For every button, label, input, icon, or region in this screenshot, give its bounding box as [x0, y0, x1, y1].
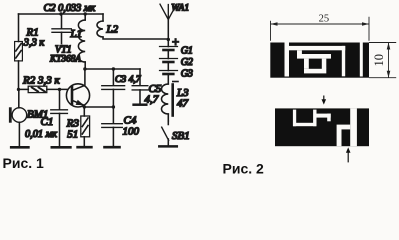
wire top rail	[19, 13, 104, 15]
label minus	[173, 81, 178, 83]
trace groove U left vertical	[293, 110, 296, 127]
trace groove band stub	[327, 114, 331, 122]
trace groove E	[304, 69, 326, 74]
svg-text:47: 47	[177, 98, 189, 110]
resistor R3	[81, 107, 90, 146]
wire left rail lower	[18, 61, 20, 90]
inductor L1	[78, 14, 85, 69]
svg-text:4,7: 4,7	[145, 94, 159, 106]
svg-text:3,3 к: 3,3 к	[23, 37, 45, 48]
capacitor C5	[132, 69, 148, 104]
wire left rail upper	[18, 14, 20, 42]
dimension 25 extension lines	[271, 17, 370, 41]
svg-text:10: 10	[372, 54, 386, 67]
ground C5	[134, 103, 147, 106]
trace groove T arm	[342, 125, 351, 130]
capacitor C4	[102, 107, 123, 146]
svg-text:Рис. 1: Рис. 1	[3, 155, 45, 171]
capacitor C3	[102, 69, 125, 107]
resistor R1	[15, 42, 23, 61]
ground BM1	[11, 146, 28, 149]
switch SB1	[162, 121, 169, 146]
trace groove V1	[297, 50, 302, 56]
node collector	[83, 67, 86, 70]
dimension 10 extension lines	[369, 43, 396, 78]
trace groove band	[316, 114, 330, 118]
svg-text:C3 4,7: C3 4,7	[115, 74, 142, 85]
svg-text:25: 25	[319, 14, 330, 25]
battery G2	[160, 50, 178, 62]
trace groove U right vertical	[313, 110, 316, 127]
node C2 top	[59, 12, 62, 15]
trace groove right stripe	[350, 108, 357, 146]
svg-text:0,01 мк: 0,01 мк	[25, 129, 57, 140]
ground C1	[52, 146, 71, 149]
inductor L2	[97, 14, 168, 39]
PCB board bottom (Рис. 2, foil side)	[275, 108, 369, 146]
dimension 10 arrowheads	[387, 43, 391, 78]
node left rail base	[17, 88, 20, 91]
trace groove T vertical	[337, 125, 342, 147]
svg-text:SB1: SB1	[172, 130, 190, 142]
trace groove U bottom bar	[293, 123, 316, 126]
svg-text:L2: L2	[106, 24, 119, 36]
ground SB1	[159, 145, 177, 148]
trace groove C right vertical	[342, 46, 345, 76]
trace groove V2	[322, 59, 327, 69]
dimension 10 line	[388, 43, 390, 78]
wire collector	[85, 68, 140, 70]
wire emitter	[84, 106, 113, 108]
svg-text:G3: G3	[181, 69, 193, 80]
capacitor C1	[51, 89, 68, 145]
antenna WA1	[160, 4, 177, 39]
ground R3	[78, 146, 92, 149]
node emitter	[83, 105, 86, 108]
wire base	[19, 88, 29, 90]
transistor VT1	[66, 69, 89, 107]
arrow down between boards	[322, 96, 327, 105]
node base junction	[58, 88, 61, 91]
svg-text:R2 3,3 к: R2 3,3 к	[22, 75, 60, 87]
svg-text:Рис. 2: Рис. 2	[223, 161, 265, 177]
dimension 25 arrowheads	[271, 22, 370, 26]
battery G3	[160, 62, 178, 74]
trace groove F thin	[360, 43, 363, 77]
dimension 25 line	[271, 23, 370, 25]
node antenna junction	[167, 38, 170, 41]
microphone BM1	[9, 89, 27, 146]
trace groove D	[297, 54, 331, 59]
trace groove V3	[304, 59, 309, 69]
node C3 top	[112, 67, 115, 70]
wire base right	[47, 88, 67, 90]
PCB board top (Рис. 2, component side)	[270, 43, 369, 78]
svg-text:51: 51	[67, 129, 78, 141]
svg-text:КТ368А: КТ368А	[49, 55, 81, 65]
node L1 top	[84, 12, 87, 15]
svg-text:G1: G1	[181, 45, 193, 56]
svg-text:C1: C1	[41, 116, 54, 128]
ground C4	[105, 146, 120, 149]
arrow up below bottom board	[346, 147, 351, 162]
svg-text:C2 0,033 мк: C2 0,033 мк	[44, 3, 96, 14]
svg-text:100: 100	[123, 126, 140, 138]
inductor L3	[161, 74, 172, 121]
trace groove A left vertical	[285, 43, 290, 77]
trace groove B top horizontal	[285, 46, 346, 50]
battery G1	[160, 40, 178, 51]
capacitor C2	[52, 14, 71, 44]
node C3 bottom	[112, 105, 115, 108]
svg-text:L1: L1	[70, 28, 83, 40]
svg-text:WA1: WA1	[171, 3, 189, 14]
svg-text:G2: G2	[181, 57, 193, 68]
resistor R2	[28, 86, 47, 92]
